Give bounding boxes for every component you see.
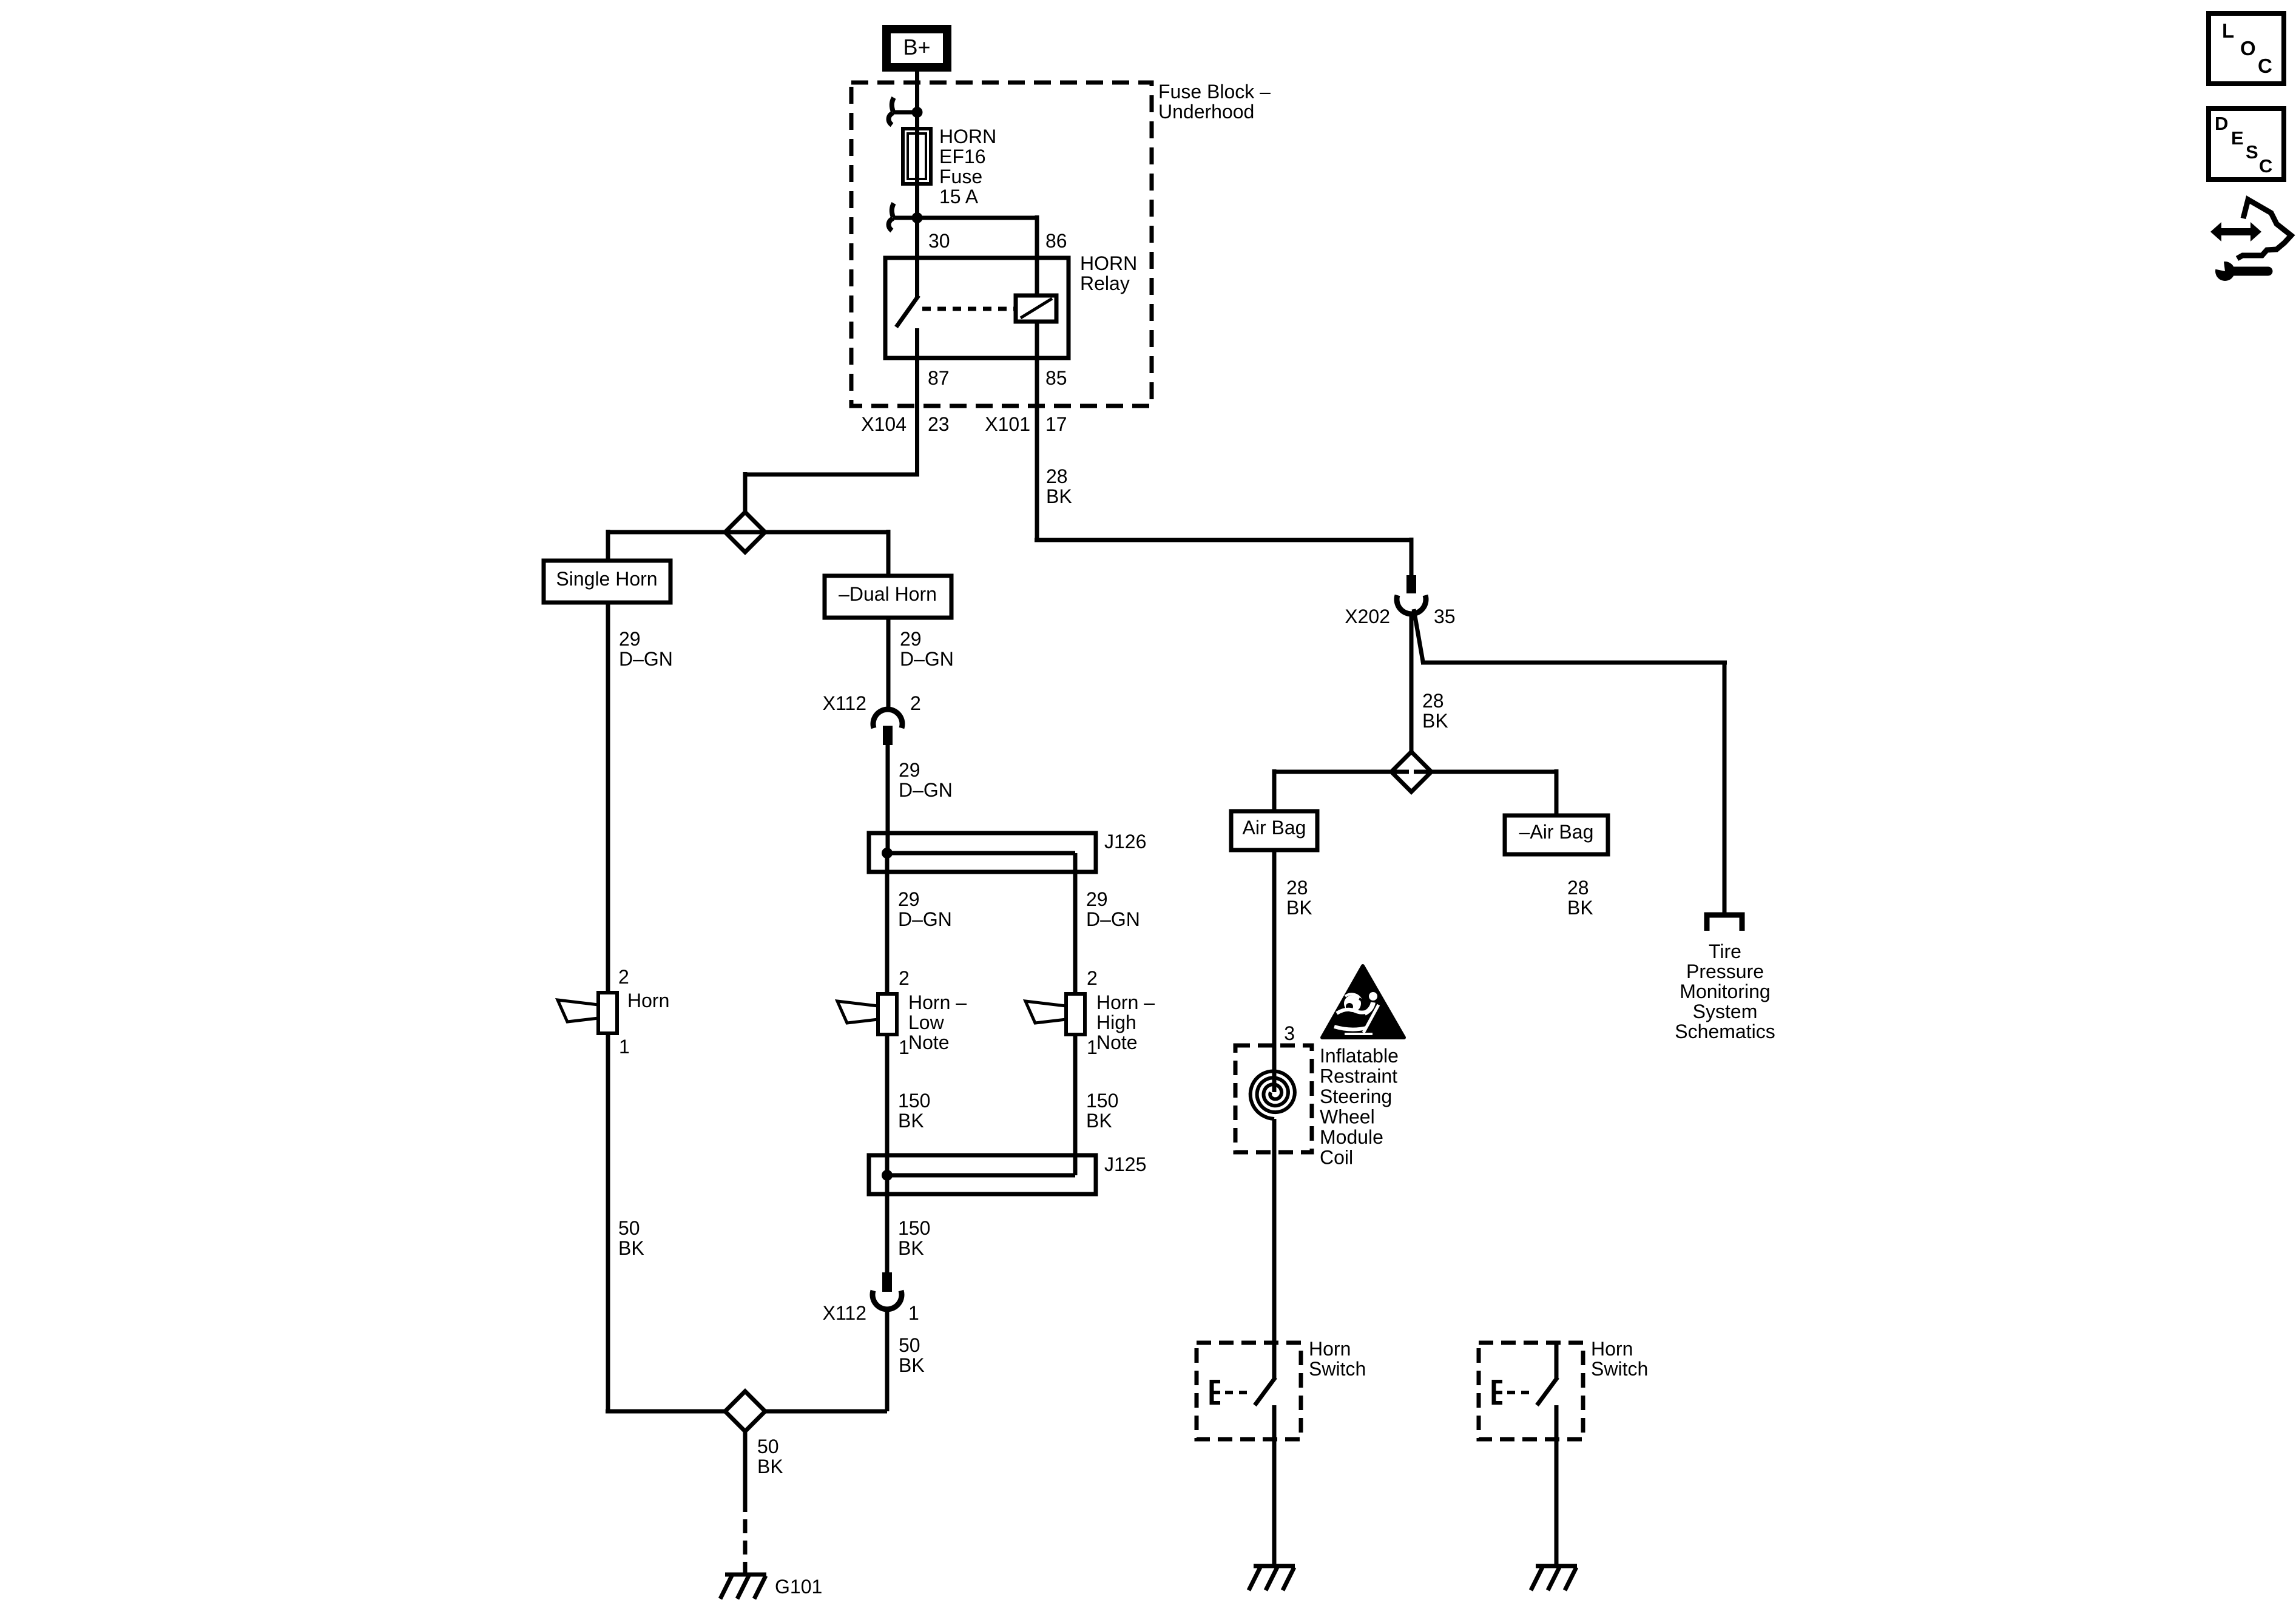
svg-text:X104: X104 bbox=[861, 413, 907, 435]
svg-text:Steering: Steering bbox=[1320, 1085, 1392, 1107]
svg-text:J125: J125 bbox=[1104, 1153, 1146, 1175]
svg-text:HORN: HORN bbox=[939, 126, 996, 147]
svg-text:150: 150 bbox=[898, 1217, 930, 1239]
svg-text:D–GN: D–GN bbox=[900, 648, 954, 670]
label fuse bbox=[939, 126, 996, 208]
label pin 2 (single horn) bbox=[618, 966, 629, 988]
label Inflatable Restraint Steering Wheel Module Coil bbox=[1320, 1045, 1399, 1169]
label 50 BK (single) bbox=[618, 1217, 644, 1259]
label pin 1 (single horn) bbox=[619, 1036, 630, 1058]
label 29 D-GN (high) bbox=[1086, 888, 1140, 930]
horn Low Note bbox=[837, 994, 897, 1035]
horn switch (-air bag) bbox=[1479, 1343, 1583, 1439]
svg-text:Horn: Horn bbox=[627, 990, 669, 1011]
Single Horn option box bbox=[544, 561, 670, 603]
wire horn high to J125 bbox=[1073, 1035, 1078, 1175]
svg-text:D–GN: D–GN bbox=[619, 648, 673, 670]
-Air Bag option box bbox=[1505, 815, 1608, 854]
wire pin85 down bbox=[1035, 358, 1039, 540]
svg-text:D: D bbox=[2215, 113, 2228, 134]
label Horn Switch (right) bbox=[1591, 1338, 1648, 1380]
svg-text:Monitoring: Monitoring bbox=[1680, 981, 1770, 1002]
junction block J125 bbox=[869, 1155, 1096, 1194]
label 28 BK (below X202) bbox=[1422, 690, 1448, 732]
wire splice to ground solid bbox=[743, 1431, 748, 1498]
label 150 BK (high) bbox=[1086, 1090, 1118, 1132]
svg-text:Fuse Block –: Fuse Block – bbox=[1158, 81, 1271, 103]
label 150 BK (below J125) bbox=[898, 1217, 930, 1259]
svg-text:85: 85 bbox=[1045, 367, 1067, 389]
svg-text:J126: J126 bbox=[1104, 831, 1146, 852]
label HORN Relay bbox=[1080, 252, 1137, 294]
svg-text:29: 29 bbox=[900, 628, 922, 650]
label connector X104 pin 23 bbox=[861, 413, 949, 435]
wire X202 to splice S3 bbox=[1410, 613, 1414, 754]
svg-text:Underhood: Underhood bbox=[1158, 101, 1254, 123]
svg-text:Wheel: Wheel bbox=[1320, 1106, 1375, 1128]
svg-text:Coil: Coil bbox=[1320, 1147, 1353, 1169]
svg-text:50: 50 bbox=[757, 1436, 779, 1457]
svg-text:2: 2 bbox=[618, 966, 629, 988]
fuse HORN EF16 15A bbox=[903, 129, 931, 184]
label 28 BK (-air bag) bbox=[1567, 877, 1593, 919]
svg-text:Tire: Tire bbox=[1709, 940, 1741, 962]
Dual Horn option box bbox=[825, 576, 951, 618]
svg-text:1: 1 bbox=[619, 1036, 630, 1058]
svg-text:Pressure: Pressure bbox=[1686, 960, 1764, 982]
svg-text:High: High bbox=[1096, 1011, 1136, 1033]
svg-text:D–GN: D–GN bbox=[898, 908, 952, 930]
svg-text:X101: X101 bbox=[985, 413, 1030, 435]
label Horn High Note bbox=[1087, 991, 1155, 1058]
svg-text:28: 28 bbox=[1286, 877, 1308, 899]
label pin 2 (high note) bbox=[1087, 967, 1098, 989]
label pin 87 bbox=[928, 367, 950, 389]
svg-text:Relay: Relay bbox=[1080, 272, 1130, 294]
svg-text:28: 28 bbox=[1422, 690, 1444, 712]
ground (air bag horn switch) bbox=[1249, 1566, 1295, 1590]
svg-text:29: 29 bbox=[899, 759, 920, 781]
svg-text:G101: G101 bbox=[775, 1576, 822, 1598]
junction block J126 bbox=[869, 833, 1096, 872]
wire B+ to fuse bbox=[915, 72, 919, 130]
svg-text:C: C bbox=[2259, 155, 2272, 177]
svg-text:X112: X112 bbox=[823, 1302, 866, 1324]
svg-text:2: 2 bbox=[899, 967, 910, 989]
svg-text:L: L bbox=[2222, 19, 2234, 42]
warning triangle airbag bbox=[1322, 966, 1404, 1038]
wire J125 to X112-1 bbox=[885, 1175, 890, 1272]
wire air bag to coil bbox=[1272, 850, 1277, 1092]
svg-text:HORN: HORN bbox=[1080, 252, 1137, 274]
label pin 85 bbox=[1045, 367, 1067, 389]
wire X112-2 to J126 bbox=[886, 745, 890, 853]
svg-text:29: 29 bbox=[619, 628, 641, 650]
splice S2 bbox=[725, 1391, 765, 1431]
svg-text:EF16: EF16 bbox=[939, 146, 985, 167]
label pin 2 (low note) bbox=[899, 967, 910, 989]
splice S3 bbox=[1391, 752, 1431, 792]
svg-text:D–GN: D–GN bbox=[1086, 908, 1140, 930]
svg-text:2: 2 bbox=[1087, 967, 1098, 989]
svg-text:BK: BK bbox=[899, 1354, 925, 1376]
svg-text:Inflatable: Inflatable bbox=[1320, 1045, 1399, 1067]
label Horn Switch (left) bbox=[1309, 1338, 1366, 1380]
relay coil bbox=[1016, 258, 1056, 358]
svg-text:87: 87 bbox=[928, 367, 950, 389]
svg-text:29: 29 bbox=[1086, 888, 1108, 910]
label Fuse Block Underhood bbox=[1158, 81, 1271, 123]
horn Single bbox=[558, 993, 617, 1033]
label 50 BK (to G101) bbox=[757, 1436, 783, 1477]
svg-text:B+: B+ bbox=[903, 35, 930, 59]
svg-text:D–GN: D–GN bbox=[899, 779, 953, 801]
label X202 35 bbox=[1345, 606, 1455, 627]
relay linkage dashed bbox=[922, 307, 1016, 311]
svg-text:15 A: 15 A bbox=[939, 186, 979, 208]
wire J126 to horn low bbox=[885, 853, 890, 995]
label Horn Low Note bbox=[899, 991, 967, 1058]
svg-text:150: 150 bbox=[898, 1090, 930, 1112]
wire to Single Horn bbox=[608, 530, 747, 561]
label X112 2 bbox=[823, 692, 921, 714]
horn High Note bbox=[1025, 994, 1085, 1035]
wire 29 D-GN dual horn bbox=[886, 618, 891, 710]
svg-text:BK: BK bbox=[1086, 1110, 1112, 1132]
label X112 1 bbox=[823, 1302, 919, 1324]
wire switch to ground (left) bbox=[1272, 1439, 1277, 1566]
label 28 BK (air bag) bbox=[1286, 877, 1312, 919]
svg-text:E: E bbox=[2231, 127, 2244, 149]
label 29 D-GN (low) bbox=[898, 888, 952, 930]
label pin 30 bbox=[928, 230, 950, 252]
label 28 BK (X101) bbox=[1046, 465, 1072, 507]
ground (-air bag horn switch) bbox=[1531, 1566, 1577, 1590]
off-page connector TPMS bbox=[1707, 915, 1742, 931]
svg-text:Switch: Switch bbox=[1591, 1358, 1648, 1380]
label 29 D-GN (dual) bbox=[900, 628, 954, 670]
svg-text:BK: BK bbox=[1567, 897, 1593, 919]
svg-text:BK: BK bbox=[898, 1110, 924, 1132]
wire junction to relay pin86 bbox=[915, 215, 1037, 258]
label Tire Pressure Monitoring System Schematics bbox=[1675, 940, 1775, 1042]
svg-text:23: 23 bbox=[928, 413, 950, 435]
svg-text:Horn: Horn bbox=[1591, 1338, 1633, 1360]
label G101 bbox=[775, 1576, 822, 1598]
junction node above fuse bbox=[889, 98, 923, 125]
svg-text:30: 30 bbox=[928, 230, 950, 252]
connector X112 pin 2 bbox=[873, 709, 902, 745]
svg-text:S: S bbox=[2246, 141, 2258, 163]
svg-text:3: 3 bbox=[1284, 1022, 1295, 1044]
wire X112-1 to splice bbox=[885, 1309, 890, 1411]
label 50 BK (dual) bbox=[899, 1334, 925, 1376]
splice S1 bbox=[725, 512, 765, 552]
Air Bag option box bbox=[1231, 811, 1317, 850]
svg-text:–Air Bag: –Air Bag bbox=[1519, 821, 1594, 843]
svg-text:BK: BK bbox=[1286, 897, 1312, 919]
svg-text:150: 150 bbox=[1086, 1090, 1118, 1112]
svg-text:BK: BK bbox=[1046, 485, 1072, 507]
label J126 bbox=[1104, 831, 1146, 852]
horn switch (air bag) bbox=[1197, 1343, 1301, 1439]
label 150 BK (low) bbox=[898, 1090, 930, 1132]
label Horn (single) bbox=[627, 990, 669, 1011]
label connector X101 pin 17 bbox=[985, 413, 1067, 435]
svg-text:Horn –: Horn – bbox=[908, 991, 967, 1013]
relay HORN box bbox=[885, 258, 1069, 358]
svg-text:BK: BK bbox=[618, 1237, 644, 1259]
svg-text:X202: X202 bbox=[1345, 606, 1390, 627]
label J125 bbox=[1104, 1153, 1146, 1175]
wire single horn to splice bbox=[606, 1033, 610, 1411]
svg-text:Module: Module bbox=[1320, 1126, 1383, 1148]
svg-text:28: 28 bbox=[1567, 877, 1589, 899]
wire to -Air Bag bbox=[1414, 769, 1556, 815]
svg-text:System: System bbox=[1693, 1001, 1758, 1022]
DESC description box bbox=[2209, 109, 2284, 180]
svg-text:2: 2 bbox=[910, 692, 921, 714]
wire branch to TPMS bbox=[1414, 609, 1727, 914]
svg-text:29: 29 bbox=[898, 888, 920, 910]
wire fuse to relay pin30 bbox=[915, 184, 919, 258]
wire pin87 down bbox=[915, 358, 919, 474]
wire jog left bbox=[745, 472, 919, 514]
svg-text:Restraint: Restraint bbox=[1320, 1065, 1397, 1087]
svg-text:BK: BK bbox=[1422, 710, 1448, 732]
svg-text:17: 17 bbox=[1045, 413, 1067, 435]
svg-text:Note: Note bbox=[1096, 1031, 1138, 1053]
wire dashed to G101 bbox=[743, 1498, 748, 1573]
junction node below fuse bbox=[889, 203, 923, 231]
wire right to X202 bbox=[1035, 538, 1411, 575]
svg-text:O: O bbox=[2240, 37, 2256, 59]
fuse block underhood dashed box bbox=[851, 83, 1152, 406]
svg-text:–Dual Horn: –Dual Horn bbox=[839, 583, 937, 605]
wire horn low to J125 bbox=[885, 1033, 890, 1175]
connector X202 pin 35 bbox=[1397, 575, 1426, 614]
wire coil to horn switch bbox=[1272, 1119, 1277, 1343]
svg-text:Schematics: Schematics bbox=[1675, 1021, 1775, 1042]
svg-text:X112: X112 bbox=[823, 692, 866, 714]
svg-text:35: 35 bbox=[1434, 606, 1456, 627]
svg-text:50: 50 bbox=[899, 1334, 920, 1356]
svg-text:C: C bbox=[2258, 55, 2272, 77]
svg-text:BK: BK bbox=[898, 1237, 924, 1259]
svg-text:Fuse: Fuse bbox=[939, 166, 982, 187]
svg-text:Single Horn: Single Horn bbox=[556, 568, 657, 590]
LOC locator box bbox=[2209, 13, 2284, 84]
svg-text:Horn: Horn bbox=[1309, 1338, 1351, 1360]
svg-text:Low: Low bbox=[908, 1011, 945, 1033]
steering wheel module coil (clockspring) bbox=[1235, 1045, 1312, 1152]
relay switch contact bbox=[896, 258, 919, 358]
wire segments into splice S2 bbox=[606, 1409, 887, 1414]
label 29 D-GN (single) bbox=[619, 628, 673, 670]
label 29 D-GN (below X112) bbox=[899, 759, 953, 801]
svg-text:1: 1 bbox=[908, 1302, 919, 1324]
wire to Dual Horn bbox=[743, 530, 888, 576]
svg-text:Switch: Switch bbox=[1309, 1358, 1366, 1380]
label pin 86 bbox=[1045, 230, 1067, 252]
connector X112 pin 1 bbox=[873, 1272, 902, 1309]
label pin 3 bbox=[1284, 1022, 1295, 1044]
power feed B+ box bbox=[886, 29, 947, 67]
svg-text:86: 86 bbox=[1045, 230, 1067, 252]
svg-text:BK: BK bbox=[757, 1456, 783, 1477]
ground G101 bbox=[720, 1575, 766, 1599]
wire switch to ground (right) bbox=[1555, 1439, 1559, 1566]
svg-text:Note: Note bbox=[908, 1031, 950, 1053]
svg-text:28: 28 bbox=[1046, 465, 1068, 487]
wire J126 to horn high bbox=[1073, 872, 1078, 995]
navigation icon (double arrow, outline, wrench) bbox=[2210, 200, 2291, 281]
svg-text:50: 50 bbox=[618, 1217, 640, 1239]
svg-text:Air Bag: Air Bag bbox=[1243, 817, 1306, 839]
wire to Air Bag bbox=[1274, 769, 1409, 811]
svg-text:Horn –: Horn – bbox=[1096, 991, 1155, 1013]
wire 29 D-GN single horn bbox=[606, 603, 610, 994]
